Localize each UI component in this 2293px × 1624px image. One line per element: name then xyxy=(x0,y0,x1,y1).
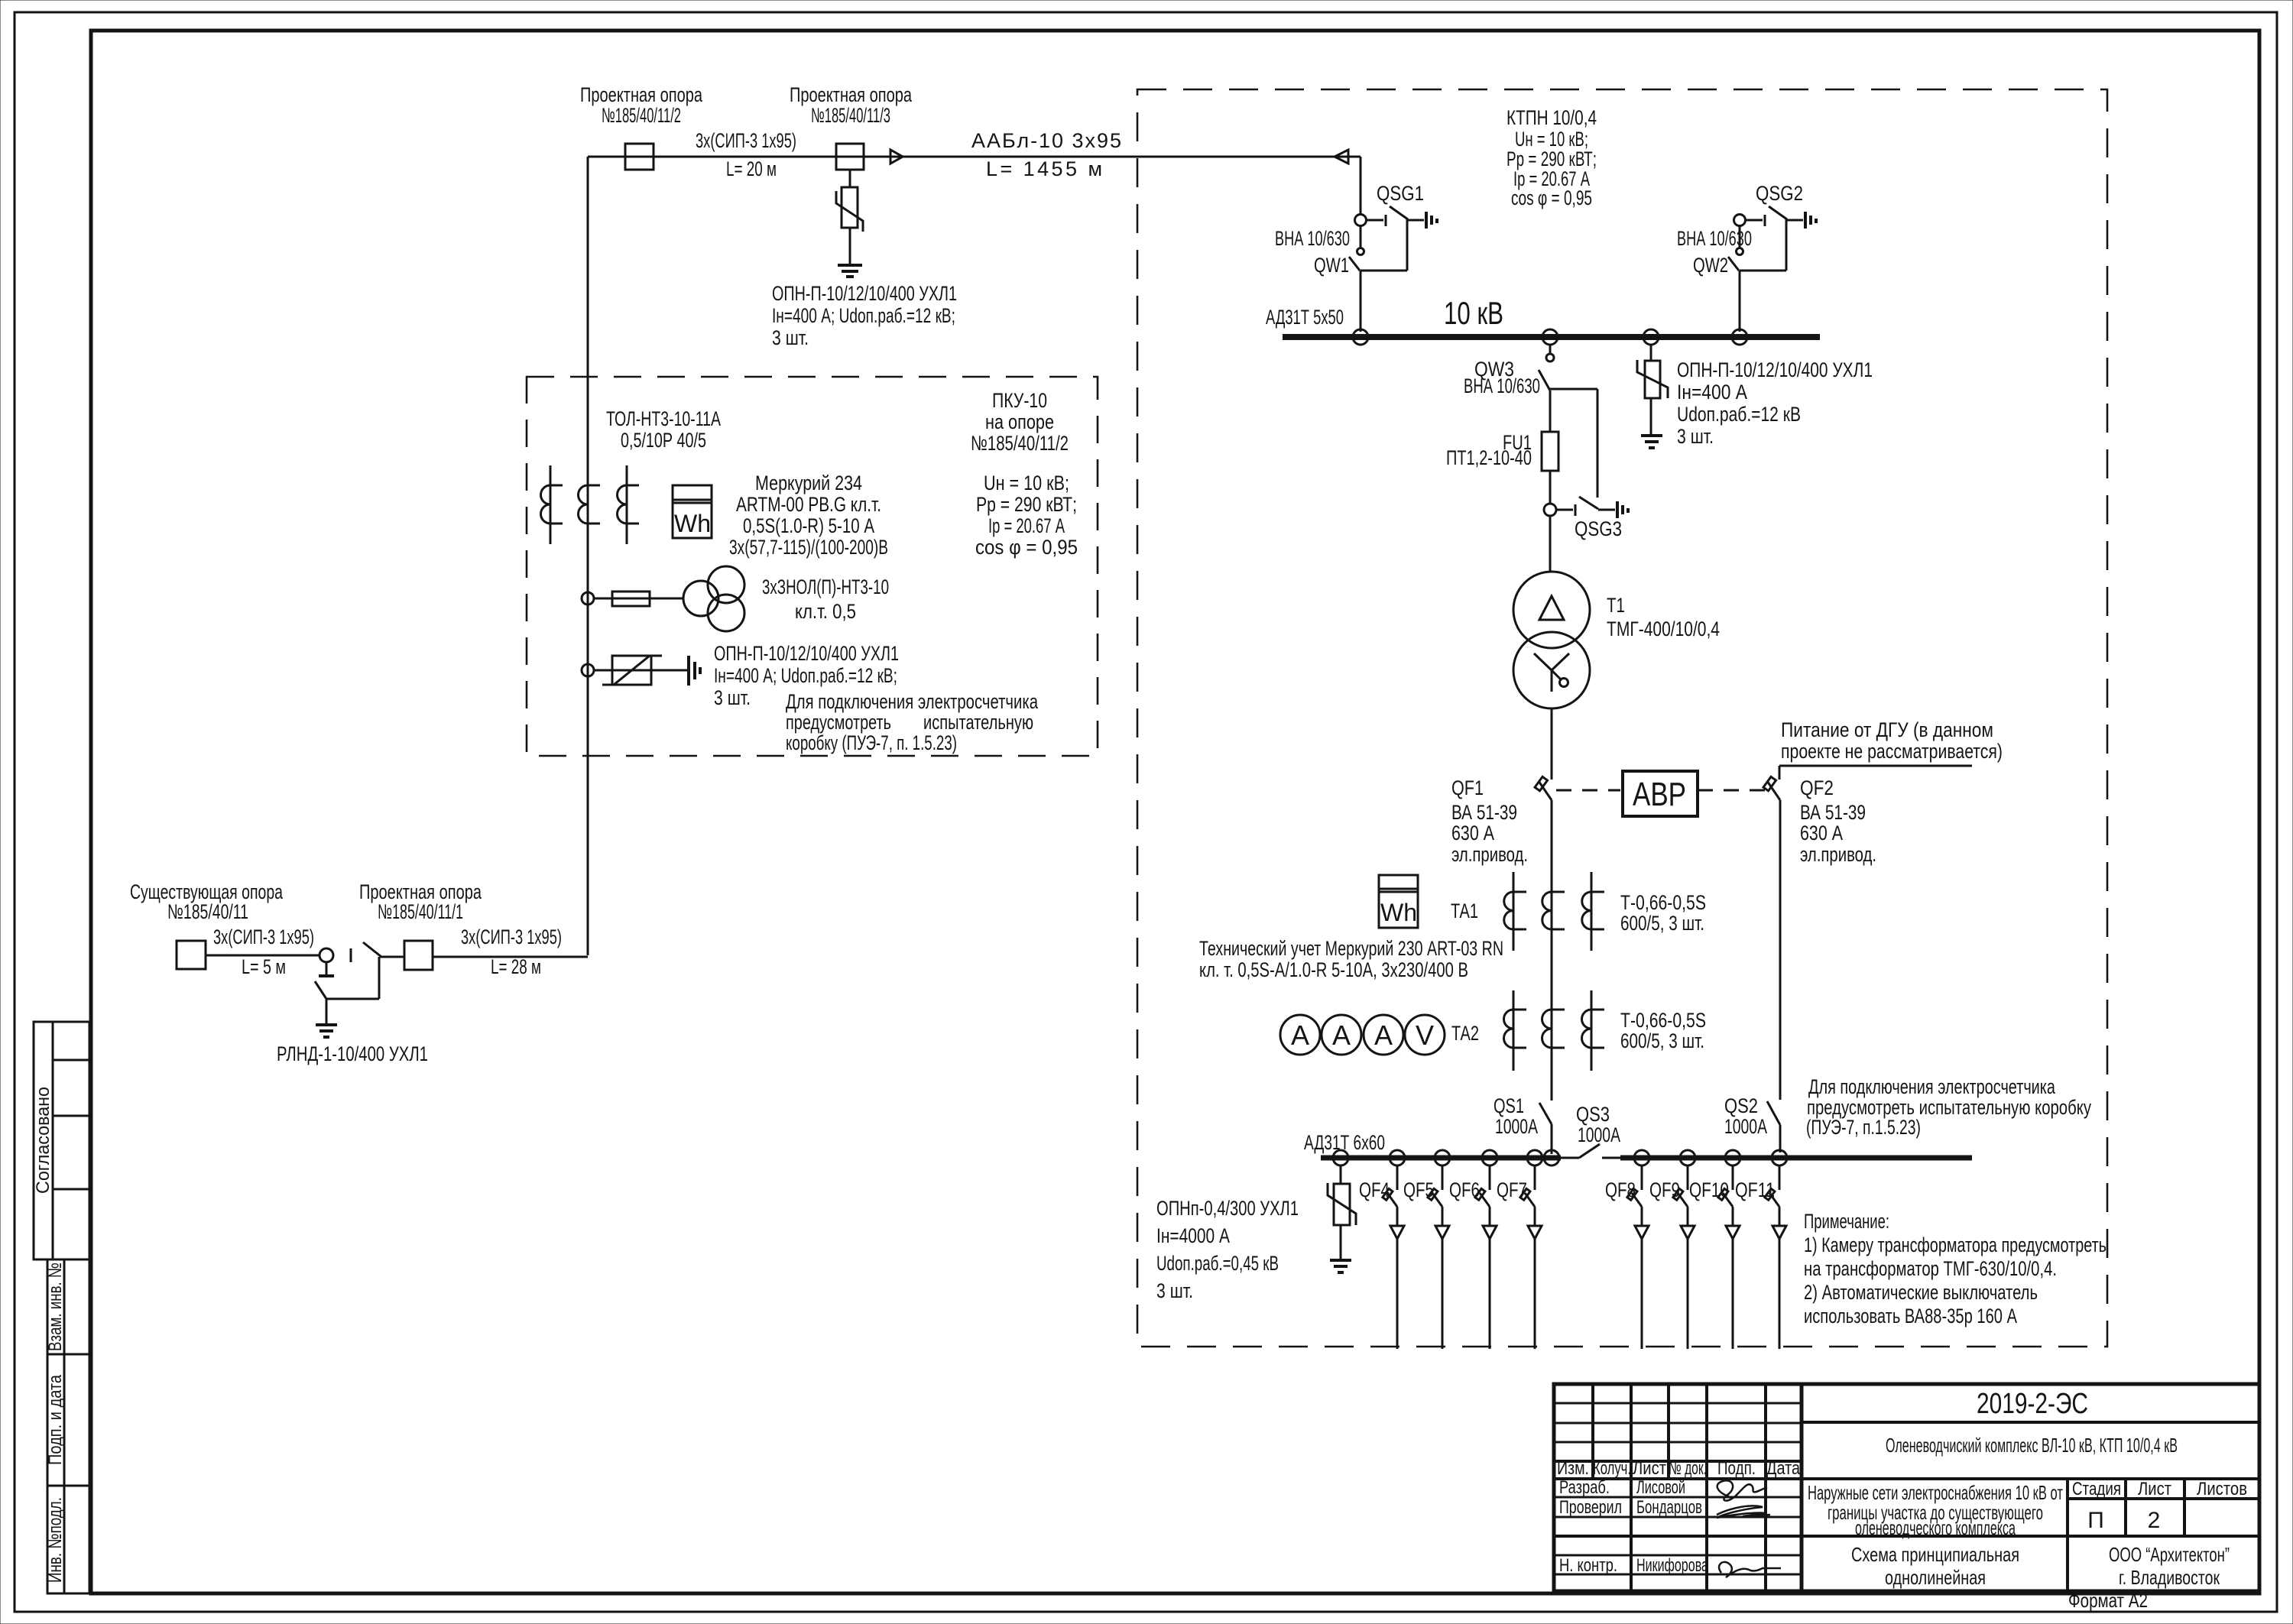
right part horizontals xyxy=(1802,1421,2259,1424)
svg-text:эл.привод.: эл.привод. xyxy=(1800,843,1876,866)
label ТОЛ-НТ3-10-11А xyxy=(606,407,721,452)
svg-text:ПТ1,2-10-40: ПТ1,2-10-40 xyxy=(1446,446,1532,469)
svg-text:ТОЛ-НТ3-10-11А: ТОЛ-НТ3-10-11А xyxy=(606,407,721,430)
svg-text:однолинейная: однолинейная xyxy=(1885,1566,1986,1589)
svg-text:КТПН 10/0,4: КТПН 10/0,4 xyxy=(1507,106,1597,129)
bus node QS1 xyxy=(1544,1150,1559,1165)
signature squiggle 2 xyxy=(1717,1506,1770,1518)
svg-text:ОПН-П-10/12/10/400 УХЛ1: ОПН-П-10/12/10/400 УХЛ1 xyxy=(1677,358,1873,381)
direction arrow on line xyxy=(890,150,903,164)
bus node QF9 xyxy=(1680,1150,1695,1165)
svg-text:3х(57,7-115)/(100-200)В: 3х(57,7-115)/(100-200)В xyxy=(729,536,888,559)
current transformer CT c xyxy=(618,465,640,544)
svg-text:№185/40/11/1: №185/40/11/1 xyxy=(378,900,463,923)
svg-text:Iн=400 А: Iн=400 А xyxy=(1677,381,1747,404)
label ОПН-П on bus xyxy=(1677,358,1873,448)
svg-text:Udоп.раб.=12 кВ: Udоп.раб.=12 кВ xyxy=(1677,403,1801,426)
svg-text:Никифорова: Никифорова xyxy=(1636,1555,1708,1576)
feeder QF7 xyxy=(1520,1165,1542,1349)
svg-text:QF1: QF1 xyxy=(1451,776,1484,799)
svg-text:Iн=4000 А: Iн=4000 А xyxy=(1156,1224,1230,1247)
svg-text:cos φ = 0,95: cos φ = 0,95 xyxy=(1511,186,1592,209)
svg-text:Оленеводчиский комплекс ВЛ-10: Оленеводчиский комплекс ВЛ-10 кВ, КТП 10… xyxy=(1886,1434,2178,1457)
svg-text:РЛНД-1-10/400 УХЛ1: РЛНД-1-10/400 УХЛ1 xyxy=(277,1042,428,1065)
disconnector РЛНД-1-10/400 pivot node xyxy=(319,948,333,962)
label ОПН-П-10/12/10/400 УХЛ1 (pku) xyxy=(714,642,899,709)
surge arrester horizontal xyxy=(602,656,662,685)
ground of pole arrester xyxy=(838,265,862,277)
svg-text:№185/40/11: №185/40/11 xyxy=(167,900,248,923)
note: test box for meter xyxy=(786,690,1039,754)
svg-text:Iн=400 А; Udоп.раб.=12 кВ;: Iн=400 А; Udоп.раб.=12 кВ; xyxy=(772,304,955,327)
fuse of VT xyxy=(612,592,650,606)
label Технический учет xyxy=(1199,937,1503,981)
label QS3 1000А xyxy=(1576,1103,1620,1146)
label 3хЗНОЛ(П)-НТ3-10 xyxy=(762,575,889,623)
surge arrester ОПНп-0,4 xyxy=(1328,1165,1356,1259)
surge arrester on bus xyxy=(1637,345,1668,436)
svg-text:QF9: QF9 xyxy=(1649,1178,1680,1201)
svg-text:Рр = 290 кВТ;: Рр = 290 кВТ; xyxy=(976,493,1077,516)
svg-text:Н. контр.: Н. контр. xyxy=(1559,1555,1617,1576)
svg-text:испытательную: испытательную xyxy=(923,711,1033,734)
svg-text:Изм.: Изм. xyxy=(1557,1458,1589,1479)
wire FU1 to QSG3 xyxy=(1549,471,1552,504)
ground symbol РЛНД xyxy=(316,1025,337,1037)
bus node QF7 xyxy=(1527,1150,1542,1165)
disconnector blade xyxy=(363,942,381,957)
wire down to QSG1 xyxy=(1360,157,1362,215)
wire T1 to QF1 xyxy=(1551,708,1553,780)
disconnector QW1 xyxy=(1349,226,1364,332)
svg-text:Инв. №подл.: Инв. №подл. xyxy=(45,1497,66,1583)
svg-text:3х(СИП-3 1х95): 3х(СИП-3 1х95) xyxy=(213,925,314,948)
label cable ААБл-10 3х95 L=1455м xyxy=(971,129,1121,180)
wire: overhead line from pole 11/2 to KTPN xyxy=(588,156,1361,158)
svg-text:Меркурий 234: Меркурий 234 xyxy=(755,472,862,494)
label 3х(СИП-3 1х95) L=28м xyxy=(461,925,562,978)
svg-text:630 А: 630 А xyxy=(1451,822,1494,844)
surge arrester on pole 11/3 xyxy=(836,170,863,265)
svg-text:ВНА 10/630: ВНА 10/630 xyxy=(1464,374,1540,397)
signature squiggle 1 xyxy=(1717,1480,1767,1500)
svg-text:Разраб.: Разраб. xyxy=(1559,1477,1610,1498)
revision header labels xyxy=(1557,1458,1801,1479)
label Проектная опора №185/40/11/3 xyxy=(790,83,913,127)
label electrical parameters xyxy=(975,472,1078,559)
label QS2 1000А xyxy=(1724,1094,1767,1138)
dashed boundary ПКУ-10 box xyxy=(527,377,1098,756)
svg-text:Взам. инв. №: Взам. инв. № xyxy=(45,1263,66,1351)
current transformer CT b (on riser) xyxy=(579,465,601,544)
svg-text:ВА 51-39: ВА 51-39 xyxy=(1800,801,1866,824)
ground ОПНп xyxy=(1330,1260,1351,1272)
earthing-switch linkage xyxy=(378,957,381,999)
svg-text:0,5/10Р 40/5: 0,5/10Р 40/5 xyxy=(621,429,706,452)
svg-text:(ПУЭ-7, п.1.5.23): (ПУЭ-7, п.1.5.23) xyxy=(1806,1116,1921,1139)
CT TA1 a xyxy=(1504,872,1526,951)
svg-text:проекте не рассматривается): проекте не рассматривается) xyxy=(1781,740,2003,763)
svg-text:ООО “Архитектон”: ООО “Архитектон” xyxy=(2109,1543,2230,1566)
svg-text:L= 5 м: L= 5 м xyxy=(242,955,286,978)
dashed link АВР to QF2 xyxy=(1698,789,1766,792)
svg-text:2: 2 xyxy=(2148,1508,2161,1533)
svg-text:QF5: QF5 xyxy=(1403,1178,1434,1201)
switch QS1 xyxy=(1539,1103,1552,1154)
svg-text:Для подключения электросчетчик: Для подключения электросчетчика xyxy=(1808,1075,2056,1098)
svg-text:ТА2: ТА2 xyxy=(1451,1022,1479,1045)
label cable 3х(СИП-3 1х95) L=20м xyxy=(696,129,796,180)
earthing down-lead xyxy=(326,999,328,1024)
svg-text:QS2: QS2 xyxy=(1724,1094,1758,1117)
svg-text:кл.т. 0,5: кл.т. 0,5 xyxy=(795,600,856,623)
dashed boundary КТПН box xyxy=(1137,89,2107,1347)
svg-text:QF8: QF8 xyxy=(1605,1178,1636,1201)
svg-text:Схема принципиальная: Схема принципиальная xyxy=(1851,1543,2019,1566)
label КТПН 10/0,4 parameters xyxy=(1507,106,1597,209)
bus stub right of QS3 xyxy=(1602,1157,1622,1159)
feeder QF8 xyxy=(1627,1165,1649,1349)
CT TA2 a xyxy=(1503,990,1526,1071)
svg-text:cos φ = 0,95: cos φ = 0,95 xyxy=(975,536,1078,559)
svg-text:QSG1: QSG1 xyxy=(1377,182,1424,205)
CT TA2 b (on main line) xyxy=(1542,990,1565,1071)
svg-text:оленеводческого комплекса: оленеводческого комплекса xyxy=(1855,1516,2016,1539)
svg-text:600/5, 3 шт.: 600/5, 3 шт. xyxy=(1620,1029,1704,1052)
label Т-0,66-0,5S 600/5 (TA1) xyxy=(1620,891,1706,935)
line end arrow xyxy=(1335,150,1348,164)
dashed link QF1 to АВР xyxy=(1556,789,1620,792)
voltmeter V xyxy=(1405,1015,1445,1055)
svg-text:Для подключения электросчетчик: Для подключения электросчетчика xyxy=(786,690,1039,713)
label FU1 / ПТ1,2-10-40 xyxy=(1446,431,1532,469)
svg-text:Т-0,66-0,5S: Т-0,66-0,5S xyxy=(1620,1009,1706,1032)
node: arrester tap on riser xyxy=(582,664,594,676)
ammeter A2 xyxy=(1322,1015,1361,1055)
circuit breaker QF1 xyxy=(1535,776,1552,1100)
svg-text:ОПНп-0,4/300 УХЛ1: ОПНп-0,4/300 УХЛ1 xyxy=(1156,1197,1299,1220)
svg-text:3 шт.: 3 шт. xyxy=(1156,1279,1193,1302)
CT TA1 c xyxy=(1582,872,1604,951)
svg-text:предусмотреть: предусмотреть xyxy=(786,711,891,734)
svg-text:А: А xyxy=(1291,1019,1309,1051)
svg-text:Iр = 20.67 А: Iр = 20.67 А xyxy=(988,514,1065,537)
CT TA2 c xyxy=(1582,990,1605,1071)
svg-text:Iн=400 А; Udоп.раб.=12 кВ;: Iн=400 А; Udоп.раб.=12 кВ; xyxy=(714,664,897,687)
label QS1 1000А xyxy=(1494,1094,1538,1138)
feeder QF6 xyxy=(1475,1165,1497,1349)
pole opora 185/40/11/3 xyxy=(836,144,864,170)
bus node QF5 xyxy=(1435,1150,1450,1165)
label ПКУ-10 на опоре xyxy=(971,389,1069,455)
svg-text:630 А: 630 А xyxy=(1800,822,1843,844)
circuit breaker QF2 xyxy=(1763,776,1780,1100)
svg-text:№185/40/11/3: №185/40/11/3 xyxy=(811,104,890,127)
svg-text:3 шт.: 3 шт. xyxy=(772,326,809,349)
wire: riser down left xyxy=(587,157,589,955)
label ОПНп-0,4/300 УХЛ1 xyxy=(1156,1197,1299,1302)
label Меркурий 234 meter xyxy=(729,472,888,559)
svg-text:Листов: Листов xyxy=(2197,1479,2247,1499)
feeder QF9 xyxy=(1673,1165,1695,1349)
svg-text:L= 1455 м: L= 1455 м xyxy=(986,157,1102,180)
bus node QF6 xyxy=(1482,1150,1497,1165)
svg-text:АВР: АВР xyxy=(1633,776,1686,813)
svg-text:3 шт.: 3 шт. xyxy=(714,686,751,709)
node: VT tap on riser xyxy=(582,592,594,605)
svg-text:Бондарцов: Бондарцов xyxy=(1636,1497,1702,1518)
svg-text:коробку (ПУЭ-7, п. 1.5.23): коробку (ПУЭ-7, п. 1.5.23) xyxy=(786,731,957,754)
wire from ДГУ xyxy=(1779,765,1972,767)
label ОПН-П-10/12/10/400 УХЛ1 (pole) xyxy=(772,282,957,349)
svg-text:Формат А2: Формат А2 xyxy=(2068,1589,2148,1612)
svg-text:QF6: QF6 xyxy=(1449,1178,1480,1201)
Wh meter box xyxy=(673,485,712,538)
svg-text:использовать ВА88-35р 160 А: использовать ВА88-35р 160 А xyxy=(1804,1305,2017,1327)
label Проектная опора №185/40/11/1 xyxy=(359,880,482,923)
feeder QF5 xyxy=(1428,1165,1449,1349)
wire blade to pole xyxy=(380,956,404,958)
title block outer frame xyxy=(1554,1384,2259,1591)
fuse FU1 xyxy=(1542,432,1558,471)
svg-text:Питание от ДГУ (в данном: Питание от ДГУ (в данном xyxy=(1781,718,1993,741)
label QF2 ВА 51-39 630 А эл.привод. xyxy=(1800,776,1876,866)
svg-text:2019-2-ЭС: 2019-2-ЭС xyxy=(1977,1388,2088,1420)
svg-text:10 кВ: 10 кВ xyxy=(1444,295,1503,331)
ammeter A1 xyxy=(1280,1015,1320,1055)
svg-text:V: V xyxy=(1416,1019,1434,1051)
svg-text:3х(СИП-3 1х95): 3х(СИП-3 1х95) xyxy=(696,129,796,152)
left stamp box Согласовано xyxy=(33,1022,89,1259)
bus 0,4 кВ right section xyxy=(1620,1156,1972,1161)
earthing switch QSG3 xyxy=(1544,497,1615,516)
bus node QW1 xyxy=(1353,329,1368,345)
svg-text:Согласовано: Согласовано xyxy=(33,1087,54,1194)
earth terminal QSG3 xyxy=(1617,501,1628,518)
feeder QF10 xyxy=(1718,1165,1740,1349)
pole проектная 185/40/11/1 xyxy=(404,941,433,970)
svg-text:А: А xyxy=(1374,1019,1393,1051)
svg-text:Технический учет Меркурий 230: Технический учет Меркурий 230 ART-03 RN xyxy=(1199,937,1503,960)
svg-text:ВА 51-39: ВА 51-39 xyxy=(1451,801,1517,824)
signature rows xyxy=(1559,1477,1708,1576)
stadia table xyxy=(2068,1479,2259,1591)
disconnector QW2 xyxy=(1728,226,1743,332)
earthing switch QSG2 xyxy=(1734,206,1804,271)
svg-text:№185/40/11/2: №185/40/11/2 xyxy=(602,104,681,127)
svg-text:3хЗНОЛ(П)-НТ3-10: 3хЗНОЛ(П)-НТ3-10 xyxy=(762,575,889,598)
svg-text:QF10: QF10 xyxy=(1689,1178,1729,1201)
svg-text:ОПН-П-10/12/10/400 УХЛ1: ОПН-П-10/12/10/400 УХЛ1 xyxy=(772,282,957,305)
fixed contact tick xyxy=(350,948,352,962)
svg-text:QSG3: QSG3 xyxy=(1575,517,1622,540)
svg-text:Лист: Лист xyxy=(1633,1458,1666,1479)
svg-text:г. Владивосток: г. Владивосток xyxy=(2119,1566,2220,1589)
transformer T1 xyxy=(1513,572,1590,708)
svg-text:Uн = 10 кВ;: Uн = 10 кВ; xyxy=(984,472,1069,494)
svg-text:3 шт.: 3 шт. xyxy=(1677,425,1714,448)
svg-text:QF2: QF2 xyxy=(1800,776,1834,799)
svg-text:QW1: QW1 xyxy=(1314,254,1349,277)
svg-text:№185/40/11/2: №185/40/11/2 xyxy=(971,432,1069,455)
bus node QF8 xyxy=(1634,1150,1649,1165)
svg-text:Подп. и дата: Подп. и дата xyxy=(45,1374,66,1465)
wire QSG3 to T1 xyxy=(1549,516,1552,572)
svg-text:А: А xyxy=(1332,1019,1351,1051)
earthing blade xyxy=(315,981,326,999)
bus stub to QS3 xyxy=(1561,1157,1579,1159)
svg-text:1000А: 1000А xyxy=(1724,1115,1767,1138)
svg-text:Примечание:: Примечание: xyxy=(1804,1210,1889,1233)
wire to VT fuse xyxy=(594,598,683,600)
svg-text:Wh: Wh xyxy=(674,510,711,537)
svg-text:кл. т. 0,5S-А/1.0-R 5-10А, 3х2: кл. т. 0,5S-А/1.0-R 5-10А, 3х230/400 В xyxy=(1199,958,1468,981)
svg-text:П: П xyxy=(2087,1508,2104,1533)
svg-text:ВНА 10/630: ВНА 10/630 xyxy=(1275,227,1350,250)
svg-text:QW2: QW2 xyxy=(1693,254,1728,277)
earth terminal QSG1 xyxy=(1426,212,1437,229)
label Т1 ТМГ-400/10/0,4 xyxy=(1607,594,1720,640)
svg-text:1) Камеру трансформатора преду: 1) Камеру трансформатора предусмотреть xyxy=(1804,1233,2107,1256)
svg-text:L= 20 м: L= 20 м xyxy=(726,157,777,180)
svg-text:на трансформатор ТМГ-630/10/0,: на трансформатор ТМГ-630/10/0,4. xyxy=(1804,1257,2057,1280)
svg-text:ПКУ-10: ПКУ-10 xyxy=(992,389,1047,412)
disconnector QW3 xyxy=(1539,345,1597,498)
svg-text:ТМГ-400/10/0,4: ТМГ-400/10/0,4 xyxy=(1607,618,1720,640)
pole существующая 185/40/11 xyxy=(177,941,206,969)
voltage transformer 3xЗНОЛ (three circles) xyxy=(683,566,744,631)
svg-text:Т-0,66-0,5S: Т-0,66-0,5S xyxy=(1620,891,1706,914)
current transformer CT a xyxy=(541,465,563,544)
label QF1 ВА 51-39 630 А эл.привод. xyxy=(1451,776,1528,866)
svg-text:Udоп.раб.=0,45 кВ: Udоп.раб.=0,45 кВ xyxy=(1156,1252,1279,1275)
svg-text:ААБл-10 3х95: ААБл-10 3х95 xyxy=(971,129,1121,152)
label Питание от ДГУ xyxy=(1781,718,2003,763)
fixed earthing contact under node xyxy=(326,962,328,976)
svg-text:QF7: QF7 xyxy=(1497,1178,1527,1201)
note Примечание xyxy=(1804,1210,2107,1327)
earth terminal QSG2 xyxy=(1805,212,1816,229)
svg-text:1000А: 1000А xyxy=(1495,1115,1538,1138)
wire to arrester xyxy=(594,669,687,672)
earth terminal of arrester xyxy=(689,656,700,686)
label Т-0,66-0,5S 600/5 (TA2) xyxy=(1620,1009,1706,1052)
svg-text:Проектная опора: Проектная опора xyxy=(580,83,703,106)
svg-text:эл.привод.: эл.привод. xyxy=(1451,843,1528,866)
svg-text:3х(СИП-3 1х95): 3х(СИП-3 1х95) xyxy=(461,925,562,948)
svg-text:ARTM-00 PB.G кл.т.: ARTM-00 PB.G кл.т. xyxy=(736,493,881,516)
svg-text:QS3: QS3 xyxy=(1576,1103,1610,1126)
svg-text:Проверил: Проверил xyxy=(1559,1497,1622,1518)
wire pole to disconnector xyxy=(206,955,320,957)
svg-text:Дата: Дата xyxy=(1766,1458,1801,1479)
note: test box 0,4 xyxy=(1806,1075,2091,1139)
title block revision-table horizontals xyxy=(1554,1403,2259,1574)
CT TA1 b (on main line) xyxy=(1542,872,1565,951)
svg-text:№ док.: № док. xyxy=(1669,1458,1707,1479)
Wh meter box (тех. учет) xyxy=(1379,875,1418,928)
signature squiggle 3 xyxy=(1719,1562,1781,1577)
bus node QW2 xyxy=(1732,329,1747,345)
svg-text:АД31Т 5х50: АД31Т 5х50 xyxy=(1266,306,1344,329)
svg-text:Т1: Т1 xyxy=(1607,594,1625,617)
bus node QS2/QF11 xyxy=(1772,1150,1787,1165)
svg-text:Проектная опора: Проектная опора xyxy=(790,83,913,106)
left stamp box Инв. №подл. xyxy=(45,1486,89,1593)
svg-text:QS1: QS1 xyxy=(1494,1094,1524,1117)
svg-text:Стадия: Стадия xyxy=(2072,1479,2121,1499)
svg-text:0,5S(1.0-R) 5-10 А: 0,5S(1.0-R) 5-10 А xyxy=(743,514,874,537)
svg-text:QSG2: QSG2 xyxy=(1756,182,1803,205)
title block revision-table verticals xyxy=(1593,1384,1802,1591)
bus 10 кВ xyxy=(1283,334,1820,340)
svg-text:Лист: Лист xyxy=(2138,1479,2171,1499)
bus node ОПНп xyxy=(1333,1150,1348,1165)
label Проектная опора №185/40/11/2 xyxy=(580,83,703,127)
svg-text:на опоре: на опоре xyxy=(985,410,1054,433)
svg-text:QF11: QF11 xyxy=(1735,1178,1775,1201)
svg-text:Wh: Wh xyxy=(1380,899,1417,926)
left stamp box Взам. инв. № xyxy=(45,1259,89,1354)
label Существующая опора №185/40/11 xyxy=(130,880,284,923)
svg-text:ОПН-П-10/12/10/400 УХЛ1: ОПН-П-10/12/10/400 УХЛ1 xyxy=(714,642,899,665)
svg-text:L= 28 м: L= 28 м xyxy=(491,955,541,978)
bus node QF4 xyxy=(1390,1150,1405,1165)
switch QS2 xyxy=(1767,1101,1780,1125)
svg-text:ТА1: ТА1 xyxy=(1451,900,1478,922)
svg-text:Лисовой: Лисовой xyxy=(1636,1477,1685,1498)
svg-text:1000А: 1000А xyxy=(1578,1123,1620,1146)
svg-text:Колуч.: Колуч. xyxy=(1593,1458,1631,1479)
left stamp box Подп. и дата xyxy=(45,1354,89,1486)
svg-text:Подп.: Подп. xyxy=(1717,1458,1756,1479)
feeder QF11 xyxy=(1765,1165,1786,1349)
pole opora 185/40/11/2 xyxy=(625,144,654,170)
ground of bus arrester xyxy=(1641,436,1662,448)
svg-text:2) Автоматические выключатель: 2) Автоматические выключатель xyxy=(1804,1281,2038,1304)
earthing switch QSG1 xyxy=(1355,206,1425,271)
АВР box xyxy=(1623,771,1698,816)
label 3х(СИП-3 1х95) L=5м xyxy=(213,925,314,978)
bus node QW3 xyxy=(1542,329,1558,345)
bus node arrester xyxy=(1643,329,1659,345)
ammeter A3 xyxy=(1364,1015,1403,1055)
svg-text:600/5, 3 шт.: 600/5, 3 шт. xyxy=(1620,912,1704,935)
wire pole 11/1 to riser corner xyxy=(433,956,588,958)
feeder QF4 xyxy=(1383,1165,1404,1349)
bus node QF10 xyxy=(1725,1150,1740,1165)
switch QS3 blade xyxy=(1579,1144,1600,1158)
bus 0,4 кВ left section xyxy=(1321,1156,1561,1161)
svg-text:QF4: QF4 xyxy=(1359,1178,1390,1201)
